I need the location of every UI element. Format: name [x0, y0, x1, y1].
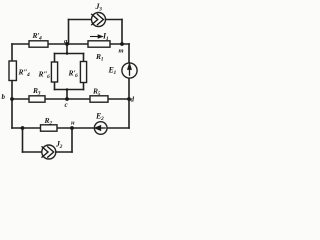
wire J3 loop left riser from node a — [68, 20, 70, 45]
node m junction dot — [120, 42, 124, 46]
emf source E1 arrow (up) — [128, 64, 131, 76]
wire J3 loop top — [69, 19, 123, 21]
junction dot pair bottom — [66, 88, 69, 91]
svg-text:н: н — [71, 120, 75, 127]
node a junction dot — [65, 42, 69, 46]
resistor R3 — [29, 96, 45, 102]
wire bottom rail — [12, 127, 129, 129]
resistor R''4 — [9, 61, 16, 81]
resistor R''6 — [51, 62, 57, 82]
emf source E2 arrow (left) — [95, 126, 106, 130]
wire top rail a (left to right) — [12, 43, 129, 45]
current source J2 arrows — [42, 146, 54, 157]
current source J2 circle — [42, 145, 56, 159]
node b junction dot — [10, 97, 14, 101]
current source J3 arrows — [91, 14, 103, 25]
resistor R5 — [90, 96, 108, 102]
wire stub node a to parallel pair top — [66, 44, 68, 54]
junction dot J2 left tap — [21, 126, 25, 130]
wire J2 loop bottom — [23, 151, 73, 153]
wire parallel pair right branch — [83, 54, 85, 90]
svg-text:d: d — [131, 96, 135, 104]
node n junction dot — [70, 126, 74, 130]
wire J2 loop left riser — [22, 128, 24, 152]
resistor R2 — [41, 125, 58, 131]
svg-text:m: m — [119, 48, 124, 55]
resistor R'6 — [80, 62, 86, 83]
wire left column b — [11, 44, 13, 128]
wire parallel pair top bar — [55, 53, 84, 55]
resistor R'4 — [29, 41, 48, 47]
wire parallel pair left branch — [54, 54, 56, 90]
junction dot pair top — [66, 52, 69, 55]
emf source E2 circle — [94, 122, 107, 135]
node d junction dot — [127, 97, 131, 101]
wire parallel pair bottom bar — [55, 89, 84, 91]
wire J3 loop right riser to node m — [121, 20, 123, 45]
wire middle rail b-c-d — [12, 98, 129, 100]
wire stub pair bottom to node c — [66, 90, 68, 100]
svg-text:c: c — [65, 101, 68, 109]
resistor R1 — [88, 41, 110, 47]
wire J2 loop right riser to node n — [71, 128, 73, 152]
wire right column — [128, 44, 130, 128]
emf source E1 circle — [122, 63, 137, 78]
current arrow I1 — [90, 35, 102, 38]
svg-text:b: b — [2, 93, 6, 101]
current source J3 circle — [92, 13, 106, 27]
node c junction dot — [65, 97, 69, 101]
